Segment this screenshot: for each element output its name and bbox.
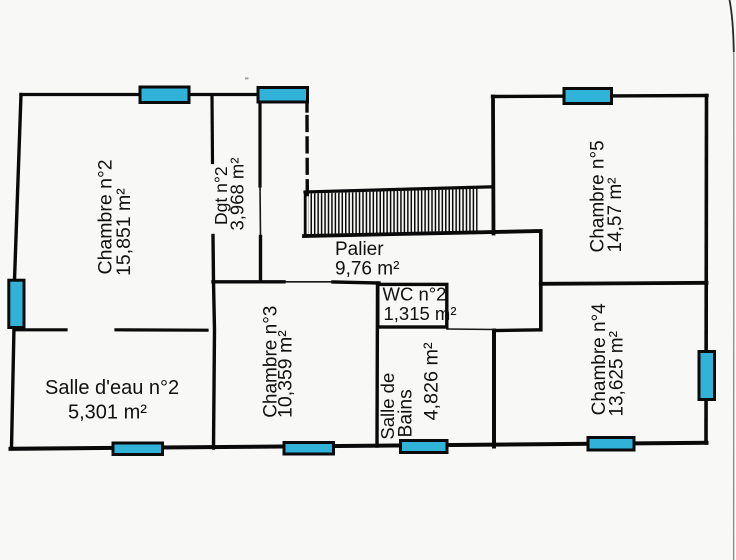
wall salle d'eau top right [116, 328, 207, 332]
wall chambre3 top left part [213, 280, 284, 283]
window top chambre5 [564, 89, 612, 104]
window bottom chambre4 [588, 438, 634, 451]
svg-text:15,851 m²: 15,851 m² [113, 188, 135, 276]
window bottom chambre3 [284, 443, 334, 455]
stair bottom line [304, 231, 541, 236]
wall dgt right lower [259, 237, 262, 282]
wall right exterior [704, 96, 708, 444]
stair top line [305, 187, 493, 192]
stair opening dashed line solid stub [305, 101, 308, 111]
window top dgt [258, 88, 308, 103]
wall dgt right upper [258, 102, 261, 187]
stair hatching [308, 189, 477, 236]
scan speck [245, 78, 249, 80]
wall salle d'eau top left [14, 328, 66, 331]
wall chambre3/sdb vertical [375, 283, 379, 446]
door thin sdb top [447, 328, 494, 331]
door thin chambre3 [284, 281, 333, 283]
svg-text:3,968 m²: 3,968 m² [227, 157, 248, 230]
window right chambre4 [699, 352, 715, 400]
window left salle d'eau [9, 280, 24, 327]
stair opening dashed line [305, 117, 309, 195]
wall palier right vertical [539, 232, 543, 285]
svg-text:13,625 m²: 13,625 m² [607, 331, 628, 417]
window bottom salle d'eau [113, 443, 163, 455]
wall chambre5 left [491, 97, 495, 234]
svg-text:4,826 m²: 4,826 m² [421, 342, 443, 420]
wall left exterior upper [15, 95, 22, 281]
wall top chambre2 [21, 93, 259, 96]
wall chambre4/5 horizontal [541, 283, 707, 284]
wall left exterior lower [12, 327, 15, 449]
svg-text:5,301 m²: 5,301 m² [68, 402, 147, 424]
svg-text:Palier: Palier [335, 239, 384, 260]
wall chambre4 notch left [539, 284, 543, 330]
svg-text:9,76 m²: 9,76 m² [335, 259, 399, 280]
window top chambre2 [140, 87, 189, 103]
wall top chambre5 [493, 96, 708, 97]
svg-text:Bains: Bains [395, 389, 416, 437]
wall sdb right vertical [492, 331, 496, 447]
windows [9, 87, 715, 455]
scan page edge artifact right [730, 0, 734, 560]
wall palier bottom right part [333, 282, 379, 283]
svg-text:WC n°2: WC n°2 [383, 284, 447, 305]
svg-text:10,359 m²: 10,359 m² [275, 330, 297, 418]
WC box [378, 284, 447, 327]
boundary thin dgt-palier [259, 186, 262, 237]
svg-text:14,57 m²: 14,57 m² [605, 178, 626, 253]
svg-text:1,315 m²: 1,315 m² [384, 303, 457, 324]
wall chambre4 notch bottom [494, 328, 541, 332]
wall bottom exterior [11, 443, 707, 449]
window bottom sdb [401, 441, 448, 453]
svg-text:Salle d'eau n°2: Salle d'eau n°2 [45, 377, 179, 399]
room labels [45, 140, 628, 439]
wall dgt left upper [210, 95, 214, 163]
stair left edge [304, 192, 307, 236]
wall dgt left lower / chambre3 left [213, 236, 215, 449]
